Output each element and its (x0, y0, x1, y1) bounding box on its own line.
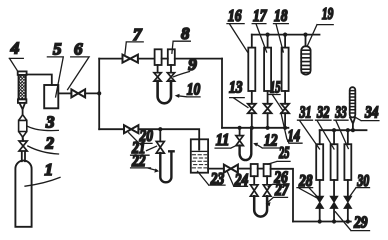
stem tube8b-valve9b (170, 65, 172, 73)
svg-text:29: 29 (353, 212, 368, 231)
riser col18 (284, 35, 286, 48)
vessel 23 liquid dashes (192, 155, 206, 168)
label 7 (125, 25, 143, 54)
stem manifold-valve11 (239, 128, 241, 136)
svg-text:8: 8 (181, 24, 190, 43)
valve 24 (224, 165, 238, 173)
node col17 riser (266, 33, 270, 37)
svg-text:33: 33 (335, 103, 348, 122)
node hose19 riser (303, 33, 307, 37)
svg-text:7: 7 (133, 25, 143, 44)
wire valve6-junction (85, 92, 99, 94)
riser hose 19 (305, 35, 307, 47)
riser col17 (267, 35, 269, 48)
node col33 riser (346, 128, 350, 132)
svg-text:16: 16 (228, 6, 242, 25)
manifold A wire (222, 127, 288, 129)
cylinder neck (22, 151, 25, 161)
label 17 (252, 6, 267, 52)
absorber tube 25b (264, 164, 271, 176)
wire reducer-valve2 (22, 137, 24, 140)
stem col18-valve14 (284, 91, 286, 104)
column 18 (282, 48, 289, 91)
label 1 (25, 160, 60, 186)
svg-text:27: 27 (274, 180, 289, 199)
vessel 23 liquid surface (192, 150, 207, 152)
node valve28b/manifoldB (332, 219, 336, 223)
absorber tube 8b (168, 49, 175, 65)
svg-text:2: 2 (45, 133, 55, 152)
wire vessel23-valve24 (208, 168, 224, 170)
label 14 (281, 113, 302, 145)
label 19 (307, 4, 333, 46)
column 4 lattice (19, 72, 27, 121)
label 32 (316, 103, 335, 150)
stem tube8a-valve9a (157, 65, 159, 73)
U-tube 22 (160, 151, 173, 182)
svg-text:4: 4 (10, 39, 19, 58)
valve 26b (263, 185, 271, 196)
absorber tube 8a (155, 49, 162, 65)
svg-text:25: 25 (278, 143, 289, 162)
stem col16-valve13 (251, 91, 253, 104)
valve 15 (264, 104, 272, 113)
stem valve30-manifoldB (347, 208, 349, 221)
svg-text:11: 11 (216, 130, 230, 149)
hose 19 (301, 46, 310, 74)
node branch to valve21 (158, 127, 162, 131)
label 9 (174, 55, 198, 77)
label 23 (198, 169, 225, 188)
valve 26a (250, 185, 258, 196)
top branch wire (99, 58, 122, 60)
column 4 bottom band (18, 99, 27, 103)
U-tube 12 (240, 128, 252, 160)
valve 20 (124, 125, 138, 133)
stem col31-valve28a (319, 180, 321, 196)
node valve15/manifold (266, 126, 270, 130)
valve 21 (156, 142, 164, 154)
wire funnel-reducer (22, 109, 24, 115)
stem to valve 21 (159, 129, 161, 141)
absorber tube 25a (251, 164, 258, 176)
svg-text:10: 10 (187, 80, 201, 99)
stem col33-valve30 (347, 180, 349, 196)
label 11 (215, 130, 237, 149)
label 29 (335, 212, 369, 232)
gas cylinder 1 (15, 161, 31, 227)
label 30 (350, 171, 370, 197)
label 4 (9, 39, 23, 72)
label 31 (298, 103, 320, 150)
svg-text:32: 32 (316, 103, 330, 122)
wire valve7-tube8a (138, 58, 155, 60)
stem valve28a-manifoldB (319, 208, 321, 221)
U-tube 10 (158, 81, 171, 103)
valve 11 (236, 136, 243, 146)
label 10 (175, 80, 201, 99)
svg-text:14: 14 (288, 126, 301, 145)
stem col32-valve28b (333, 180, 335, 196)
svg-text:31: 31 (299, 103, 312, 122)
label 20 (129, 126, 154, 145)
column 17 (264, 48, 271, 91)
node valve14/manifold (283, 126, 287, 130)
stem tube25a-valve26a (253, 176, 255, 185)
valve 30 (344, 196, 352, 208)
valve 13 (248, 104, 256, 113)
valve 28a (316, 196, 324, 208)
valve 14 (281, 104, 289, 113)
riser col16 (251, 35, 253, 48)
stem valve28b-manifoldB (333, 208, 335, 221)
valve 9a (154, 73, 161, 81)
wire box5-valve6 (58, 92, 71, 94)
valve 7 (123, 55, 138, 63)
column 4 funnel (19, 103, 25, 109)
node valve28a/manifoldB (318, 219, 322, 223)
label 28 (297, 171, 317, 198)
valve 9b (167, 73, 174, 81)
top line wire (252, 34, 320, 36)
label 24 (228, 170, 249, 189)
valve 6 (71, 89, 85, 97)
stem tube25b-valve26b (266, 176, 268, 185)
label 16 (227, 6, 248, 52)
column 31 (316, 144, 323, 180)
node valve30/manifoldB (346, 219, 350, 223)
riser col33 (347, 130, 349, 144)
stem valve13-manifold (251, 113, 253, 128)
svg-text:15: 15 (270, 78, 281, 97)
valve 2 (19, 141, 27, 151)
label 21 (131, 138, 157, 157)
svg-text:1: 1 (45, 160, 54, 179)
drying column 4 top cap (18, 71, 27, 75)
label 34 (356, 103, 379, 122)
wire tube8a-tube8b (162, 58, 168, 60)
label 25 (268, 143, 290, 164)
svg-text:22: 22 (131, 151, 146, 170)
label 3 (28, 113, 59, 132)
svg-text:30: 30 (356, 171, 369, 190)
label 6 (68, 40, 90, 90)
flowmeter box 5 (44, 85, 58, 108)
vessel 23 (191, 139, 208, 172)
pressure reducer 3 (19, 115, 27, 137)
svg-text:5: 5 (53, 40, 62, 59)
stem valve14-manifold (284, 113, 286, 128)
svg-text:34: 34 (364, 103, 378, 122)
svg-text:19: 19 (322, 4, 334, 23)
svg-text:17: 17 (253, 6, 268, 25)
svg-text:12: 12 (264, 130, 278, 149)
wire column4-box5 (27, 75, 52, 86)
label 15 (269, 78, 284, 111)
wire tube25b-feed corner (271, 169, 293, 222)
node valve11/manifold (238, 126, 242, 130)
wire valve2-cylinder (22, 137, 24, 141)
node thermometer/manifold (351, 128, 355, 132)
label 27 (266, 180, 290, 206)
column 16 (248, 48, 255, 91)
riser col31 (319, 130, 321, 144)
wire valve20-vessel23 (138, 129, 199, 149)
node col32 riser (332, 128, 336, 132)
node valve13/manifold (250, 126, 254, 130)
vessel 23 dip tube (198, 139, 200, 149)
drying column 4 body (19, 75, 26, 99)
node col18 riser (283, 33, 287, 37)
label 13 (229, 77, 248, 107)
label 8 (172, 24, 190, 53)
label 2 (28, 133, 59, 154)
column 32 (331, 144, 338, 180)
valve 28b (330, 196, 338, 208)
svg-text:3: 3 (45, 113, 55, 132)
bottom branch wire (99, 128, 124, 130)
U-tube 27 (254, 196, 267, 216)
riser col32 (333, 130, 335, 144)
right vertical wire (221, 59, 223, 128)
manifold C wire (320, 129, 367, 131)
node valve6/main vertical (97, 91, 101, 95)
thermometer 34 stem (350, 117, 355, 130)
label 5 (47, 40, 63, 97)
manifold B wire (293, 221, 351, 223)
label 22 (131, 151, 160, 173)
svg-text:13: 13 (229, 77, 243, 96)
column 33 (344, 144, 351, 180)
main vertical wire (98, 59, 100, 130)
svg-text:6: 6 (74, 40, 83, 59)
wire tube8b-right vertical (175, 58, 222, 60)
wire tube25a-tube25b (258, 168, 264, 170)
label 12 (253, 130, 280, 149)
label 33 (334, 103, 348, 149)
stem valve15-manifold (267, 113, 269, 128)
label 26 (268, 167, 288, 186)
wire valve24-tube25a (238, 168, 251, 170)
stem col17-valve15 (267, 91, 269, 104)
label 18 (274, 6, 289, 52)
thermometer 34 body (350, 87, 356, 117)
svg-text:18: 18 (274, 6, 288, 25)
